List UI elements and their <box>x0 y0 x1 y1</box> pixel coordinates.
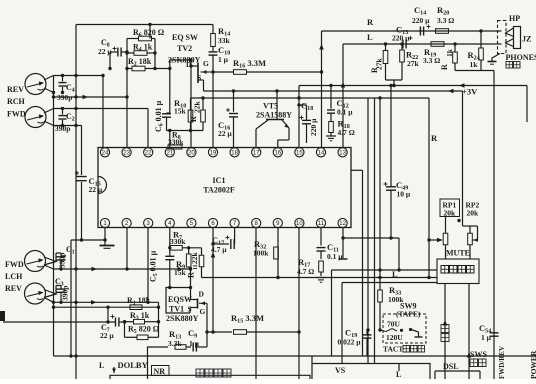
svg-text:15k: 15k <box>174 107 187 116</box>
svg-text:PHONES: PHONES <box>506 53 536 62</box>
svg-text:220 µ: 220 µ <box>392 34 410 43</box>
svg-text:2SA1588Y: 2SA1588Y <box>256 111 292 120</box>
svg-text:20: 20 <box>188 150 195 156</box>
svg-text:15k: 15k <box>174 268 187 277</box>
svg-text:10: 10 <box>296 221 303 227</box>
svg-text:220 µ: 220 µ <box>412 16 430 25</box>
svg-text:TV2: TV2 <box>177 44 192 53</box>
svg-text:L: L <box>392 269 398 279</box>
svg-text:REV: REV <box>5 284 22 293</box>
svg-text:22 µ: 22 µ <box>89 185 103 194</box>
svg-text:FWD/REV: FWD/REV <box>498 346 506 379</box>
svg-text:70U: 70U <box>387 320 401 329</box>
svg-text:POWER: POWER <box>529 350 536 379</box>
svg-text:27k: 27k <box>375 58 384 71</box>
svg-text:27k: 27k <box>407 59 420 68</box>
svg-text:22 µ: 22 µ <box>100 331 114 340</box>
svg-text:G: G <box>203 59 209 68</box>
svg-text:R15 3.3M: R15 3.3M <box>231 313 264 325</box>
svg-text:0.1 µ: 0.1 µ <box>337 108 353 117</box>
svg-text:16: 16 <box>274 150 281 156</box>
svg-text:TV1: TV1 <box>169 305 184 314</box>
svg-text:FWD: FWD <box>7 110 26 119</box>
svg-text:R4 1k: R4 1k <box>133 43 153 54</box>
svg-text:G: G <box>200 307 206 316</box>
svg-text:EQSW: EQSW <box>168 295 192 304</box>
svg-text:3.3 Ω: 3.3 Ω <box>423 56 440 65</box>
svg-text:L: L <box>396 370 401 379</box>
svg-text:SWS: SWS <box>470 350 487 359</box>
svg-text:R: R <box>431 133 438 143</box>
svg-text:R6 820 Ω: R6 820 Ω <box>133 28 165 39</box>
svg-text:20k: 20k <box>444 209 457 218</box>
svg-text:14: 14 <box>318 150 325 156</box>
svg-text:4.7 Ω: 4.7 Ω <box>338 128 355 137</box>
svg-text:EQ SW: EQ SW <box>172 33 198 42</box>
svg-text:R: R <box>440 64 449 70</box>
svg-text:R16 3.3M: R16 3.3M <box>233 58 266 70</box>
svg-text:120U: 120U <box>386 333 403 342</box>
svg-text:11: 11 <box>193 264 199 270</box>
svg-text:3.3 Ω: 3.3 Ω <box>437 16 454 25</box>
svg-text:1k: 1k <box>470 60 479 69</box>
svg-text:1 µ: 1 µ <box>218 55 229 64</box>
svg-text:IC1: IC1 <box>213 176 226 185</box>
svg-text:19: 19 <box>210 150 217 156</box>
svg-text:FWD: FWD <box>5 260 24 269</box>
svg-text:+3V: +3V <box>462 87 478 97</box>
svg-text:22k: 22k <box>190 252 199 265</box>
svg-text:10 µ: 10 µ <box>397 190 411 199</box>
svg-text:REV: REV <box>7 85 24 94</box>
svg-text:100k: 100k <box>253 249 269 258</box>
svg-text:L: L <box>367 32 373 42</box>
svg-text:NR: NR <box>154 367 166 376</box>
svg-text:22k: 22k <box>193 101 202 114</box>
svg-text:22 µ: 22 µ <box>218 129 232 138</box>
svg-text:330k: 330k <box>170 237 186 246</box>
svg-text:390p: 390p <box>58 253 67 268</box>
svg-text:33k: 33k <box>218 36 231 45</box>
svg-text:390p: 390p <box>61 286 70 301</box>
svg-text:C6 0.01 µ: C6 0.01 µ <box>154 100 165 132</box>
svg-text:4.7 Ω: 4.7 Ω <box>297 267 314 276</box>
svg-text:1 µ: 1 µ <box>481 333 492 342</box>
svg-text:21: 21 <box>166 150 173 156</box>
svg-text:R: R <box>367 17 374 27</box>
svg-text:11: 11 <box>318 221 325 227</box>
svg-text:MUTE: MUTE <box>446 249 470 258</box>
svg-text:VT5: VT5 <box>263 102 278 111</box>
svg-text:JZ: JZ <box>522 35 531 44</box>
svg-text:DOLBY: DOLBY <box>118 360 148 370</box>
svg-text:R5 820 Ω: R5 820 Ω <box>128 325 160 336</box>
svg-text:TA2002F: TA2002F <box>203 186 235 195</box>
svg-text:20k: 20k <box>467 209 480 218</box>
svg-text:18: 18 <box>231 150 238 156</box>
svg-text:DSL: DSL <box>443 362 459 371</box>
svg-text:22: 22 <box>145 150 152 156</box>
svg-text:17: 17 <box>253 150 260 156</box>
svg-text:HP: HP <box>509 14 520 23</box>
svg-text:0.022 µ: 0.022 µ <box>338 338 362 347</box>
svg-text:L: L <box>99 361 104 370</box>
svg-text:13: 13 <box>339 150 346 156</box>
svg-text:D: D <box>199 290 205 299</box>
svg-text:24: 24 <box>102 150 109 156</box>
svg-text:R3 1k: R3 1k <box>130 311 150 322</box>
svg-text:C5 0.01 µ: C5 0.01 µ <box>149 250 160 282</box>
svg-text:2SK880Y: 2SK880Y <box>166 314 199 323</box>
svg-text:23: 23 <box>123 150 130 156</box>
svg-text:12: 12 <box>339 221 346 227</box>
svg-text:15: 15 <box>296 150 303 156</box>
svg-text:LCH: LCH <box>5 272 23 281</box>
svg-text:R: R <box>189 116 198 122</box>
svg-text:TACT: TACT <box>383 345 403 354</box>
svg-text:VS: VS <box>335 366 346 375</box>
svg-text:RCH: RCH <box>7 97 26 106</box>
